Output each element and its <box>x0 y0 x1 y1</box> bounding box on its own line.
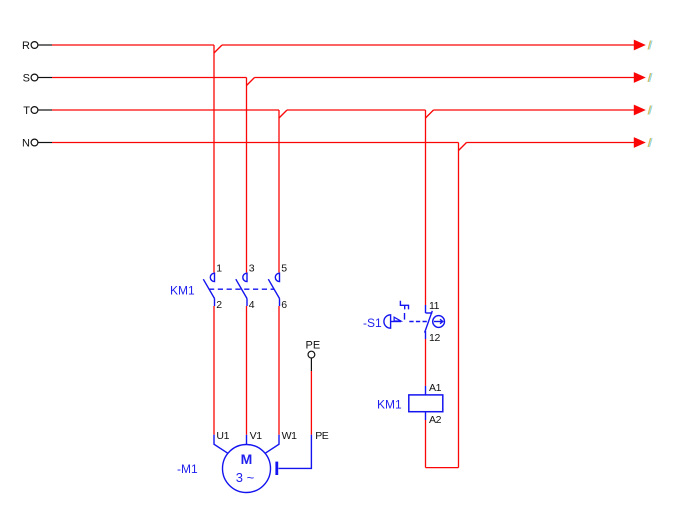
svg-text:M: M <box>241 451 253 467</box>
wire T branch jog 1 <box>279 110 287 118</box>
arrow S <box>634 72 646 83</box>
svg-text:5: 5 <box>281 262 287 274</box>
arrow R <box>634 40 646 51</box>
wire coil to bottom rail <box>425 420 427 468</box>
wire N black stub <box>38 142 52 144</box>
wire S1 to coil <box>425 339 427 386</box>
svg-text:A2: A2 <box>429 414 442 426</box>
wire L1 drop (R to KM1 pin1) <box>213 45 215 273</box>
pushbutton S1 positive-opening circle arrow <box>433 316 445 328</box>
wire T branch jog 2 <box>426 110 434 118</box>
page ref slash R <box>648 41 652 50</box>
svg-text:R: R <box>22 40 30 52</box>
wire N branch jog <box>459 143 467 151</box>
svg-text:A1: A1 <box>429 382 442 394</box>
svg-text:3: 3 <box>249 262 255 274</box>
svg-text:T: T <box>23 105 30 117</box>
wire PE black stub <box>310 358 312 371</box>
svg-text:PE: PE <box>306 340 321 352</box>
wire U1 (KM1 pin2 to motor) <box>213 306 215 435</box>
wire R black stub <box>38 44 52 46</box>
KM1 mechanical linkage dashed <box>209 288 274 290</box>
pushbutton S1 latch detent symbol <box>400 301 408 310</box>
pushbutton S1 mushroom head <box>384 315 391 328</box>
wire L2 drop (S to KM1 pin3) <box>246 78 248 273</box>
motor M1 lead U1 <box>214 435 228 453</box>
svg-text:11: 11 <box>429 300 440 312</box>
pushbutton S1 stem <box>391 321 402 323</box>
svg-text:3 ~: 3 ~ <box>236 470 255 485</box>
wire T left segment <box>52 109 279 111</box>
wire N left segment <box>52 142 459 144</box>
svg-text:W1: W1 <box>282 430 298 442</box>
motor frame PE bar <box>275 462 278 475</box>
arrow T <box>634 105 646 116</box>
wire S branch jog <box>247 78 255 86</box>
wire R left segment <box>52 44 214 46</box>
svg-text:KM1: KM1 <box>170 284 195 298</box>
svg-text:U1: U1 <box>216 430 229 442</box>
svg-text:4: 4 <box>249 299 255 311</box>
coil KM1 bottom lead <box>425 412 427 420</box>
page ref slash S <box>648 73 652 82</box>
wire S black stub <box>38 77 52 79</box>
wire PE blue segment to motor frame <box>279 435 312 469</box>
contactor KM1 pole 3 contact <box>268 273 279 306</box>
wire R branch jog <box>214 45 222 53</box>
pushbutton S1 NC contact <box>425 305 433 339</box>
wire T right segment <box>434 109 635 111</box>
coil KM1 body <box>409 395 443 412</box>
wire N return drop <box>458 143 460 468</box>
terminal S <box>31 74 38 81</box>
wire W1 (KM1 pin6 to motor) <box>278 306 280 435</box>
wire bottom rail <box>426 467 459 469</box>
motor M1 lead W1 <box>265 435 279 453</box>
arrow N <box>634 137 646 148</box>
motor M1 body <box>223 445 271 493</box>
terminal PE <box>308 351 315 358</box>
pushbutton S1 actuator dashed link <box>409 321 427 323</box>
svg-text:1: 1 <box>216 262 222 274</box>
svg-text:-M1: -M1 <box>177 462 198 476</box>
terminal R <box>31 42 38 49</box>
wire PE red segment <box>310 371 312 435</box>
wire V1 (KM1 pin4 to motor) <box>246 306 248 435</box>
contactor KM1 pole 2 contact <box>236 273 247 306</box>
svg-text:S: S <box>23 73 30 85</box>
terminal T <box>31 107 38 114</box>
pushbutton S1 latch triangle <box>394 317 401 321</box>
svg-text:6: 6 <box>281 299 287 311</box>
svg-text:PE: PE <box>315 430 329 442</box>
svg-text:12: 12 <box>429 332 440 344</box>
pushbutton S1 latch link dash <box>404 313 406 320</box>
terminal N <box>31 139 38 146</box>
page ref slash T <box>648 106 652 115</box>
svg-text:KM1: KM1 <box>377 397 402 411</box>
wire S left segment <box>52 77 247 79</box>
wire T middle segment <box>287 109 426 111</box>
svg-text:V1: V1 <box>250 430 263 442</box>
motor M1 lead V1 <box>246 435 248 445</box>
contactor KM1 pole 1 contact <box>203 273 214 306</box>
wire N right segment <box>467 142 635 144</box>
page ref slash N <box>648 138 652 147</box>
coil KM1 top lead <box>425 386 427 395</box>
wire L3 drop (T to KM1 pin5) <box>278 110 280 273</box>
svg-text:2: 2 <box>216 299 222 311</box>
svg-text:N: N <box>22 138 30 150</box>
svg-text:-S1: -S1 <box>363 316 382 330</box>
wire control drop from T <box>425 110 427 305</box>
wire S right segment <box>255 77 635 79</box>
wire R right segment <box>222 44 634 46</box>
wire T black stub <box>38 109 52 111</box>
